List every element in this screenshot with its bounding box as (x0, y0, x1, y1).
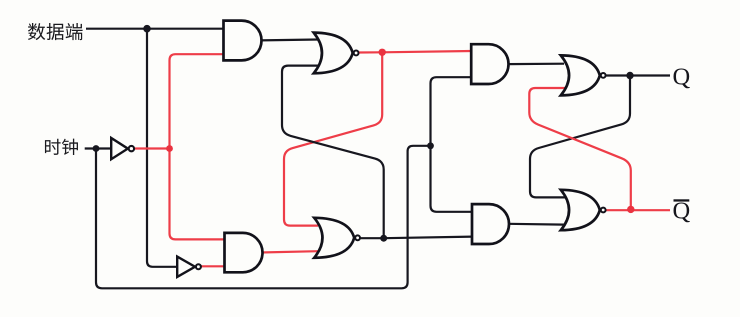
svg-text:Q: Q (673, 198, 691, 225)
wire slave cross-couple Q to NOR G10 upper input (530, 76, 630, 198)
wire clock input (时钟 to inverter G5) (85, 147, 112, 149)
wire master cross-couple Q_m to NOR G4 upper input (284, 52, 382, 225)
wire AND G8 output to NOR G10 lower input (508, 223, 565, 226)
wire inverter G6 output to AND G2 lower input (201, 265, 226, 267)
NOR gate G9 (slave latch top, Q) (561, 55, 606, 95)
label 数 (data terminal char 1) (28, 23, 45, 40)
node data junction (143, 25, 151, 33)
AND gate G7 (slave top) (471, 44, 508, 84)
NOR gate G10 (slave latch bottom, Qbar) (561, 190, 606, 230)
node master Q junction (379, 49, 386, 56)
NOR gate G3 (master latch top) (314, 33, 359, 74)
AND gate G8 (slave bottom) (472, 204, 509, 244)
wire master cross-couple Qbar_m to NOR G3 lower input (282, 66, 384, 239)
inverter G6 (data) (177, 257, 201, 277)
wire AND G1 output to NOR G3 input (260, 38, 318, 41)
wire data input (数据端 to AND G1 top input) (86, 28, 226, 30)
wire NOR G3 output (master Q) to AND G7 input (359, 51, 472, 53)
AND gate G2 (clk-bar AND data-bar) (225, 233, 263, 272)
NOR gate G4 (master latch bottom) (314, 218, 360, 258)
wire inverter G5 output (CLK-bar) (135, 147, 170, 149)
wire NOR G4 output (master Qbar) to AND G8 lower input (360, 237, 472, 239)
wire NOR G9 output to Q (606, 74, 670, 76)
node Qbar output junction (627, 206, 634, 213)
wire slave cross-couple Qbar to NOR G9 lower input (529, 88, 631, 209)
wire clock feed down-right-up to slave gates (96, 146, 431, 288)
inverter G5 (clock) (111, 138, 134, 159)
node Q output junction (626, 72, 633, 79)
label 钟 (clock char 2) (62, 139, 78, 155)
label 据 (data terminal char 2) (47, 23, 64, 40)
label 时 (clock char 1) (45, 139, 61, 155)
AND gate G1 (data AND clk-bar) (224, 21, 262, 61)
label 端 (data terminal char 3) (66, 23, 83, 40)
wire AND G2 output to NOR G4 input (260, 251, 318, 252)
node CLK-bar junction (166, 145, 173, 152)
wire CLK-bar down to AND G2 upper input (170, 149, 227, 240)
wire clock vertical to AND G7 and AND G8 inputs (431, 77, 473, 212)
wire CLK-bar up to AND G1 lower input (170, 54, 227, 148)
node clock-slave junction (427, 142, 434, 149)
svg-text:Q: Q (673, 63, 691, 90)
label Qbar output (673, 198, 691, 225)
node clock junction (93, 145, 100, 152)
wire data branch down to inverter G6 (147, 29, 178, 267)
wire NOR G10 output to Qbar (606, 209, 670, 211)
wire AND G7 output to NOR G9 input (507, 63, 564, 66)
node master Qbar junction (380, 235, 387, 242)
